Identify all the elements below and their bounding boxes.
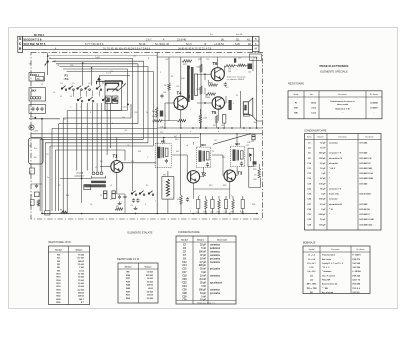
svg-text:R1: R1 xyxy=(60,210,62,212)
svg-text:100 μF: 100 μF xyxy=(319,183,326,185)
band switch row 2 xyxy=(77,97,83,102)
oscillator trimmers xyxy=(106,96,112,104)
AGC return wire xyxy=(249,166,260,188)
svg-text:ELEMENTE SPECIALE: ELEMENTE SPECIALE xyxy=(320,69,348,73)
svg-text:pol.carbo: pol.carbo xyxy=(210,268,221,271)
svg-text:ceramice 7 5: ceramice 7 5 xyxy=(329,153,342,155)
svg-text:39 kΩ: 39 kΩ xyxy=(147,278,153,280)
svg-text:″ R. L. 3: ″ R. L. 3 xyxy=(322,267,329,269)
svg-text:560 pF: 560 pF xyxy=(319,153,326,155)
wire bus nest top-left xyxy=(49,59,153,192)
svg-text:pol.carbo: pol.carbo xyxy=(210,292,221,295)
svg-text:2,2 μF: 2,2 μF xyxy=(320,163,327,165)
svg-text:100 Ω: 100 Ω xyxy=(147,295,153,297)
svg-text:FD: FD xyxy=(163,175,166,177)
capacitor C41b xyxy=(252,135,255,140)
svg-text:R25: R25 xyxy=(253,169,256,171)
svg-text:C25: C25 xyxy=(133,56,136,58)
svg-text:ceramica: ceramica xyxy=(210,261,221,264)
svg-text:1: 1 xyxy=(160,72,161,74)
svg-text:5,1 Ω: 5,1 Ω xyxy=(311,113,316,115)
svg-text:″ 6,4 V: ″ 6,4 V xyxy=(329,167,336,170)
svg-text:100: 100 xyxy=(228,71,231,73)
svg-text:electroliti: electroliti xyxy=(329,162,338,165)
svg-text:7 kΩ: 7 kΩ xyxy=(79,267,84,269)
svg-text:68 Ω: 68 Ω xyxy=(148,288,153,290)
svg-text:C15: C15 xyxy=(196,211,199,213)
svg-text:8.70.389: 8.70.389 xyxy=(360,204,369,206)
component R31 xyxy=(205,200,208,209)
svg-text:52 /4: 52 /4 xyxy=(186,43,192,46)
svg-text:R5: R5 xyxy=(171,76,173,78)
svg-text:C20: C20 xyxy=(224,211,227,213)
svg-text:CONDENSATOARE: CONDENSATOARE xyxy=(304,130,327,133)
resistor R25 vertical xyxy=(258,168,261,177)
svg-text:P.98.304: P.98.304 xyxy=(353,274,361,277)
svg-text:W: W xyxy=(236,95,238,97)
svg-text:C5: C5 xyxy=(72,83,74,85)
svg-text:C3: C3 xyxy=(63,119,65,121)
svg-text:8.725/67: 8.725/67 xyxy=(370,108,377,110)
svg-text:C8: C8 xyxy=(127,145,129,147)
svg-text:Potentiometru de volum cu: Potentiometru de volum cu xyxy=(330,100,355,103)
resistor R53 horizontal xyxy=(153,119,162,122)
svg-text:R1k: R1k xyxy=(66,195,69,197)
svg-text:Cuplaj E. L. 7 cu P. L. 3: Cuplaj E. L. 7 cu P. L. 3 xyxy=(322,263,343,265)
band switch row 3 xyxy=(131,191,137,196)
IF transformer MF3 xyxy=(230,146,245,167)
svg-text:152: 152 xyxy=(221,125,224,127)
svg-text:C22: C22 xyxy=(182,282,187,284)
resistor R52 box xyxy=(223,115,226,124)
IF transformer MF2 xyxy=(196,147,211,168)
capacitor pair below T1 xyxy=(118,195,121,199)
left lower component row xyxy=(31,200,35,206)
svg-text:REZISTOARE 1/2 W: REZISTOARE 1/2 W xyxy=(117,258,140,261)
svg-text:R19: R19 xyxy=(222,157,225,159)
resistor R49b xyxy=(206,93,215,96)
transistor T4 xyxy=(174,96,188,110)
svg-text:220 kΩ: 220 kΩ xyxy=(146,275,153,277)
svg-text:C14: C14 xyxy=(182,264,187,267)
component R35 xyxy=(232,200,235,209)
svg-text:6.27.6.6: 6.27.6.6 xyxy=(353,292,360,294)
svg-text:L9 + L10: L9 + L10 xyxy=(308,271,316,273)
resistor R1 bottom-left xyxy=(61,211,68,214)
svg-text:cu voltmetr. 20kΩ/V: cu voltmetr. 20kΩ/V xyxy=(227,78,245,81)
svg-text:100 7: 100 7 xyxy=(79,299,85,301)
svg-text:″: ″ xyxy=(329,178,330,180)
svg-text:C39: C39 xyxy=(206,59,209,61)
svg-text:R41: R41 xyxy=(197,67,200,69)
svg-text:C18: C18 xyxy=(210,211,213,213)
svg-text:3: 3 xyxy=(100,123,101,125)
svg-text:+13: +13 xyxy=(124,130,127,132)
loudspeaker xyxy=(243,102,248,114)
svg-text:PIESE ELECTRONICE: PIESE ELECTRONICE xyxy=(319,64,348,68)
svg-text:Valoare: Valoare xyxy=(197,239,205,241)
svg-text:1,2 kΩ: 1,2 kΩ xyxy=(78,283,85,285)
svg-text:ceramica: ceramica xyxy=(210,254,221,257)
audio supply rail xyxy=(157,56,257,58)
wire branch drops to switch row1 xyxy=(83,63,130,86)
svg-text:5.67.096: 5.67.096 xyxy=(353,263,361,265)
transistor T6 xyxy=(211,68,224,81)
svg-text:R17: R17 xyxy=(116,206,119,208)
svg-text:Osc. F. antena: Osc. F. antena xyxy=(322,274,336,277)
svg-text:C36: C36 xyxy=(182,300,187,302)
resistor R54 horizontal xyxy=(177,119,185,122)
svg-text:44. 45.: 44. 45. xyxy=(236,34,243,36)
capacitor C43 xyxy=(199,114,202,123)
capacitor C10 xyxy=(136,198,139,202)
resistor R27 xyxy=(182,60,192,63)
svg-text:7: 7 xyxy=(80,107,81,109)
svg-text:″: ″ xyxy=(329,173,330,175)
svg-text:C17: C17 xyxy=(182,272,187,274)
emitter rail T2-T3 xyxy=(193,188,229,190)
svg-text:C2H: C2H xyxy=(34,131,39,133)
svg-text:C26: C26 xyxy=(70,65,73,67)
svg-text:Denumire: Denumire xyxy=(338,94,348,96)
svg-text:39 kΩ: 39 kΩ xyxy=(78,277,84,279)
svg-text:intrer. cuplat: intrer. cuplat xyxy=(337,103,349,106)
svg-text:47 μF: 47 μF xyxy=(320,177,326,180)
svg-text:2,2 kΩ: 2,2 kΩ xyxy=(78,289,85,291)
svg-text:C16: C16 xyxy=(134,112,137,114)
svg-text:Simb: Simb xyxy=(307,137,311,139)
svg-text:Ant. ferita: Ant. ferita xyxy=(322,258,332,261)
svg-text:C20: C20 xyxy=(182,279,187,281)
node C7 xyxy=(47,55,49,57)
svg-text:2 cond: 2 cond xyxy=(77,173,84,175)
svg-text:C33: C33 xyxy=(176,86,179,88)
svg-text:10 μF: 10 μF xyxy=(320,168,326,170)
svg-text:P. 134/73: P. 134/73 xyxy=(353,254,361,257)
svg-text:8.30.604/ 2249: 8.30.604/ 2249 xyxy=(360,177,374,180)
svg-text:C30: C30 xyxy=(160,127,163,129)
svg-text:8.70.345: 8.70.345 xyxy=(360,182,369,185)
AGC diagonal wire xyxy=(213,134,250,145)
svg-text:C28: C28 xyxy=(253,179,256,181)
wire nest left verticals down xyxy=(40,111,67,214)
svg-text:C2: C2 xyxy=(58,185,60,187)
svg-text:C12: C12 xyxy=(160,132,163,134)
svg-text:50 46.: 50 46. xyxy=(139,43,146,46)
transistor T5 xyxy=(212,97,224,109)
svg-text:39 kΩ: 39 kΩ xyxy=(311,102,317,104)
svg-text:C18: C18 xyxy=(182,276,187,278)
svg-text:y: y xyxy=(231,195,232,197)
svg-text:2 6 7.: 2 6 7. xyxy=(146,38,153,41)
svg-text:P.31.8. 6: P.31.8. 6 xyxy=(353,288,361,290)
svg-text:8.30.603/ U 94: 8.30.603/ U 94 xyxy=(360,172,374,175)
svg-text:REZISTOARE 1/8 W: REZISTOARE 1/8 W xyxy=(49,241,72,244)
svg-text:L5: L5 xyxy=(110,185,112,187)
detector output elco xyxy=(253,161,257,164)
svg-text:6.62″ 76: 6.62″ 76 xyxy=(353,280,360,282)
component C22 xyxy=(241,200,244,209)
svg-text:ceramica: ceramica xyxy=(210,244,221,247)
svg-text:C41: C41 xyxy=(247,142,250,144)
svg-text:BOBINAJE: BOBINAJE xyxy=(303,242,316,245)
svg-text:Simbol: Simbol xyxy=(55,249,62,251)
svg-text:Ieş. af serial: Ieş. af serial xyxy=(322,292,334,294)
svg-text:10 μF: 10 μF xyxy=(200,293,207,295)
svg-text:180 pF: 180 pF xyxy=(319,158,326,160)
svg-text:Valoare: Valoare xyxy=(317,136,323,139)
svg-text:Rp: Rp xyxy=(254,122,256,124)
MF feed wires xyxy=(117,134,237,161)
driver transformer TR1 xyxy=(187,66,190,103)
svg-text:049: 049 xyxy=(207,97,210,99)
ferrite rod xyxy=(91,181,106,183)
right rezistoare table xyxy=(288,91,382,119)
schematic boundary frame (dash-dot) xyxy=(31,53,263,219)
svg-text:2x440: 2x440 xyxy=(95,57,100,59)
oscillator shield box xyxy=(105,81,122,111)
svg-text:M: M xyxy=(255,47,257,51)
capacitor C38 elco xyxy=(160,111,163,117)
svg-text:″ defazare: ″ defazare xyxy=(322,271,332,273)
svg-text:C1: C1 xyxy=(49,58,51,60)
wires connecting IF stages xyxy=(172,142,246,199)
svg-text:L3: L3 xyxy=(60,96,62,98)
transistor T1 xyxy=(111,161,123,173)
svg-text:T3: T3 xyxy=(237,171,243,176)
svg-text:C26: C26 xyxy=(182,289,187,291)
svg-text:22n: 22n xyxy=(122,117,125,119)
coil L2 box xyxy=(29,88,46,101)
resistor R17 above ground bus xyxy=(115,208,123,211)
left lower caps xyxy=(35,184,38,188)
wire left drop xyxy=(41,119,43,214)
svg-text:ELEMENTE ETALATE: ELEMENTE ETALATE xyxy=(128,231,153,234)
svg-text:3,3 nF: 3,3 nF xyxy=(199,279,206,281)
tuner enclosure rounded box xyxy=(29,138,44,164)
capacitor C24 xyxy=(186,197,189,201)
svg-text:1n: 1n xyxy=(146,112,148,114)
wire nest left-mid horizontals xyxy=(40,104,157,161)
potentiometer slider bar xyxy=(97,78,123,84)
svg-text:560 Ω: 560 Ω xyxy=(78,293,84,295)
svg-text:R15: R15 xyxy=(209,185,212,187)
svg-text:25: 25 xyxy=(212,151,214,153)
svg-text:100 μF: 100 μF xyxy=(319,224,326,226)
svg-text:L8: L8 xyxy=(57,65,59,67)
svg-text:50 μF: 50 μF xyxy=(320,188,326,190)
audio section left border xyxy=(156,53,158,214)
svg-text:33 nF: 33 nF xyxy=(200,269,207,271)
svg-text:4: 4 xyxy=(90,112,91,114)
svg-text:8.30.602/ CH: 8.30.602/ CH xyxy=(360,158,372,160)
svg-text:C12: C12 xyxy=(182,262,187,264)
right condensatoare table xyxy=(305,134,382,231)
component R33 xyxy=(218,200,221,209)
svg-text:R50: R50 xyxy=(152,116,155,118)
svg-text:Observatii: Observatii xyxy=(217,238,227,241)
svg-text:Toate cap. tip pl. 7 v: Toate cap. tip pl. 7 v xyxy=(197,301,215,304)
transistor T2 xyxy=(187,171,199,183)
svg-text:L6: L6 xyxy=(53,92,55,94)
title block right tab xyxy=(253,36,260,51)
svg-text:Valoare: Valoare xyxy=(75,249,83,251)
wires around T5/T6 xyxy=(197,57,226,121)
resistor R6 xyxy=(168,83,171,90)
capacitor C41 electrolytic xyxy=(248,64,253,70)
svg-text:430 Ω: 430 Ω xyxy=(147,284,153,287)
svg-text:polistiren: polistiren xyxy=(210,247,221,250)
svg-text:T4: T4 xyxy=(177,91,183,96)
svg-text:Nr. desen: Nr. desen xyxy=(370,94,379,96)
svg-text:T1: T1 xyxy=(113,154,119,159)
svg-text:220 Ω: 220 Ω xyxy=(78,296,84,298)
svg-text:1,5 kΩ: 1,5 kΩ xyxy=(78,264,85,266)
svg-text:Simbol: Simbol xyxy=(181,239,188,241)
wire row1 to row2 stubs xyxy=(74,91,100,97)
svg-text:+3 46 54: +3 46 54 xyxy=(214,43,224,46)
svg-text:R11: R11 xyxy=(138,151,141,153)
svg-text:4,7 μF: 4,7 μF xyxy=(199,261,206,264)
svg-text:T6: T6 xyxy=(213,61,219,66)
svg-text:10 μF: 10 μF xyxy=(320,219,326,221)
svg-text:S2: S2 xyxy=(146,185,148,187)
svg-text:+ 26 8/: + 26 8/ xyxy=(251,58,258,60)
title block strip xyxy=(23,36,253,49)
svg-text:70 kΩ: 70 kΩ xyxy=(78,255,84,257)
svg-text:BKA: BKA xyxy=(31,89,36,92)
svg-text:7: 7 xyxy=(155,201,156,203)
svg-text:0: 0 xyxy=(190,211,191,213)
svg-text:ceramica: ceramica xyxy=(210,275,221,278)
svg-text:TR1 a, TR2: TR1 a, TR2 xyxy=(306,288,316,290)
svg-text:Nr. desen: Nr. desen xyxy=(356,248,364,251)
svg-text:8: 8 xyxy=(240,211,241,213)
svg-text:ceramica: ceramica xyxy=(210,288,221,291)
oscillator coil bottom xyxy=(108,89,118,91)
svg-text:R30: R30 xyxy=(294,108,297,110)
resistor R51 xyxy=(215,115,218,123)
svg-text:8.30.604/ 94.2: 8.30.604/ 94.2 xyxy=(360,223,374,226)
svg-text:43.: 43. xyxy=(247,38,251,41)
svg-text:8.30.603/ 67: 8.30.603/ 67 xyxy=(360,163,372,165)
svg-text:C24: C24 xyxy=(182,285,187,288)
ground bus xyxy=(42,213,258,215)
resistor R20 xyxy=(180,204,182,214)
svg-text:L3: L3 xyxy=(95,167,97,169)
resistor R10b xyxy=(237,64,245,67)
svg-text:ceramice: ceramice xyxy=(329,199,339,201)
svg-text:L. 68.506: L. 68.506 xyxy=(353,271,361,273)
svg-text:8.30.606/ U 946: 8.30.606/ U 946 xyxy=(360,218,375,221)
svg-text:CONDENSATOARE: CONDENSATOARE xyxy=(178,231,200,234)
capacitor bank box xyxy=(29,105,46,114)
svg-text:0,5: 0,5 xyxy=(226,87,229,89)
svg-text:220 pF: 220 pF xyxy=(199,265,207,267)
svg-text:5 nF: 5 nF xyxy=(201,296,206,298)
svg-text:″ ″ MG: ″ ″ MG xyxy=(322,288,329,290)
svg-text:T5: T5 xyxy=(212,110,218,115)
resistor R48 xyxy=(209,84,218,87)
oscillator coil top xyxy=(106,83,119,85)
svg-text:445: 445 xyxy=(176,151,179,153)
svg-text:″: ″ xyxy=(329,183,330,185)
svg-text:R43: R43 xyxy=(197,89,200,91)
svg-text:7,5 pF: 7,5 pF xyxy=(320,142,327,144)
capacitor C44 xyxy=(224,82,227,86)
svg-text:23 /8 46: 23 /8 46 xyxy=(177,38,187,41)
svg-text:L3 + L4: L3 + L4 xyxy=(308,258,316,261)
svg-text:C30: C30 xyxy=(182,296,187,298)
long bus B xyxy=(31,137,199,139)
svg-text:451: 451 xyxy=(213,125,216,127)
svg-text:C6: C6 xyxy=(88,83,90,85)
svg-text:C4: C4 xyxy=(90,204,92,206)
svg-text:pol.carbo: pol.carbo xyxy=(210,257,221,260)
detector diode box xyxy=(248,148,254,166)
svg-text:L1 + L2: L1 + L2 xyxy=(308,255,315,257)
svg-text:electrolitic 68: electrolitic 68 xyxy=(329,203,343,206)
svg-text:+ 47: + 47 xyxy=(52,61,57,64)
svg-text:8.30.602/ 948: 8.30.602/ 948 xyxy=(360,167,373,170)
svg-text:2,2 Ω: 2,2 Ω xyxy=(311,108,316,110)
svg-text:P1: P1 xyxy=(295,102,297,104)
svg-text:P.30.684: P.30.684 xyxy=(353,283,361,286)
svg-text:C2: C2 xyxy=(46,154,48,156)
right bobinaje table xyxy=(303,246,370,294)
svg-text:R40: R40 xyxy=(294,112,297,115)
svg-text:MF1 - MF3: MF1 - MF3 xyxy=(307,284,316,286)
trimmer row xyxy=(92,172,103,175)
svg-text:50 6 562, 53 57 5: 50 6 562, 53 57 5 xyxy=(24,42,46,46)
svg-text:33 kΩ: 33 kΩ xyxy=(78,286,84,288)
svg-text:5 77 7-56 46 5 6.: 5 77 7-56 46 5 6. xyxy=(85,43,104,46)
svg-text:Bobinata 5, 1 W: Bobinata 5, 1 W xyxy=(335,108,349,111)
svg-text:8.70.346: 8.70.346 xyxy=(360,152,369,155)
svg-text:a2: a2 xyxy=(41,84,43,86)
svg-text:49: 49 xyxy=(254,175,256,177)
svg-text:Toate tens. masurate: Toate tens. masurate xyxy=(227,75,247,78)
ceramic filter FD box xyxy=(162,177,174,200)
svg-text:0,68 μF: 0,68 μF xyxy=(319,214,327,216)
svg-text:Val.: Val. xyxy=(310,94,314,96)
svg-text:C27: C27 xyxy=(246,145,249,147)
svg-text:R48: R48 xyxy=(209,82,212,84)
audio bottom rail xyxy=(157,127,262,129)
svg-text:C17: C17 xyxy=(214,140,217,142)
svg-text:3,3 nF: 3,3 nF xyxy=(320,204,327,206)
transistor T3 xyxy=(224,170,236,182)
svg-text:R2: R2 xyxy=(177,199,179,201)
svg-text:1n: 1n xyxy=(47,177,49,179)
svg-text:4.725/68: 4.725/68 xyxy=(370,101,377,104)
svg-text:47 kΩ: 47 kΩ xyxy=(78,273,84,276)
svg-text:50 53 54 7 2 6: 50 53 54 7 2 6 xyxy=(24,37,42,41)
svg-text:R29: R29 xyxy=(198,59,201,61)
svg-text:8.30.605/ U: 8.30.605/ U xyxy=(360,214,371,216)
antenna arrow xyxy=(45,62,48,66)
svg-text:R9: R9 xyxy=(100,161,102,163)
svg-text:4,7 kΩ: 4,7 kΩ xyxy=(78,257,85,260)
svg-text:apr.electrol: apr.electrol xyxy=(210,281,222,284)
svg-text:2.67.096: 2.67.096 xyxy=(353,267,361,269)
svg-text:1,8 kΩ: 1,8 kΩ xyxy=(147,272,154,274)
corner box below title strip xyxy=(250,54,262,61)
capacitor pair under ferrite xyxy=(104,191,107,199)
svg-text:200: 200 xyxy=(152,111,155,113)
svg-text:4n7: 4n7 xyxy=(174,136,177,138)
capacitor C45 elco xyxy=(229,100,232,110)
